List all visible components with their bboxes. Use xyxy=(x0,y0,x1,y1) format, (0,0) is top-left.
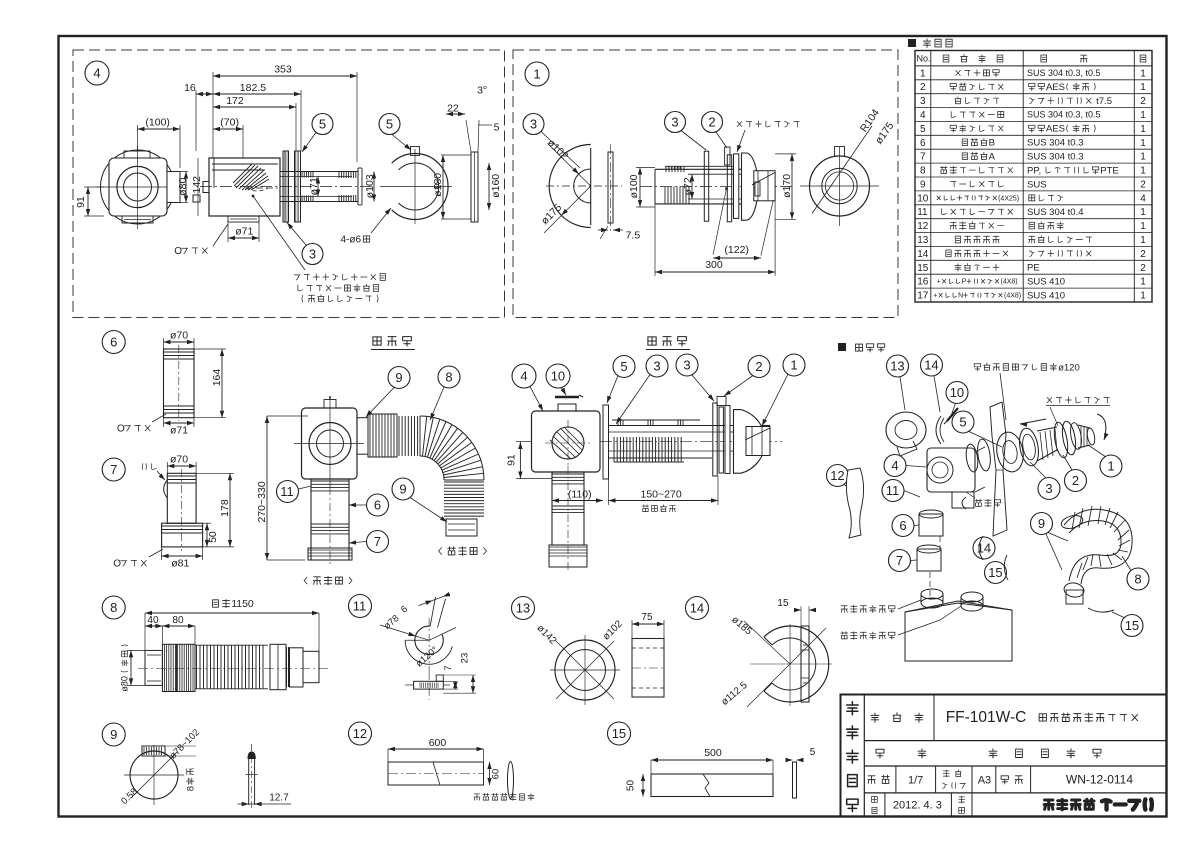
svg-text:1: 1 xyxy=(1140,110,1146,121)
svg-text:A: A xyxy=(989,152,996,163)
svg-text:2: 2 xyxy=(1140,249,1146,260)
svg-text:3: 3 xyxy=(683,358,690,373)
svg-text:8: 8 xyxy=(1134,572,1141,587)
svg-text:9: 9 xyxy=(110,727,117,742)
svg-text:ø100: ø100 xyxy=(628,174,640,198)
svg-text:2: 2 xyxy=(920,82,926,93)
svg-text:2: 2 xyxy=(1140,179,1146,190)
svg-text:6: 6 xyxy=(899,518,906,533)
svg-text:3: 3 xyxy=(671,115,678,130)
svg-text:(70): (70) xyxy=(220,117,239,129)
svg-text:13: 13 xyxy=(890,359,904,374)
svg-text:ø71: ø71 xyxy=(308,177,320,195)
svg-text:7: 7 xyxy=(374,534,381,549)
svg-text:ø70: ø70 xyxy=(170,330,188,342)
svg-text:150~270: 150~270 xyxy=(641,489,682,501)
svg-text:9: 9 xyxy=(1038,516,1045,531)
svg-text:N: N xyxy=(958,293,963,300)
svg-text:(122): (122) xyxy=(724,244,749,256)
svg-text:AES: AES xyxy=(1046,82,1065,93)
svg-text:SUS 410: SUS 410 xyxy=(1027,290,1065,301)
svg-text:13: 13 xyxy=(516,601,530,616)
svg-text:t7.5: t7.5 xyxy=(1094,96,1113,107)
svg-text:40: 40 xyxy=(147,615,159,626)
svg-text:A3: A3 xyxy=(978,774,991,786)
svg-text:3: 3 xyxy=(309,247,316,262)
svg-text:15: 15 xyxy=(917,263,929,274)
svg-text:ø103: ø103 xyxy=(364,174,376,198)
svg-text:O: O xyxy=(174,246,182,257)
svg-text:3: 3 xyxy=(920,96,926,107)
svg-text:14: 14 xyxy=(977,541,991,556)
svg-text:1: 1 xyxy=(1107,459,1114,474)
svg-text:4: 4 xyxy=(520,369,527,384)
svg-text:(4X25): (4X25) xyxy=(998,195,1019,202)
svg-text:7: 7 xyxy=(443,665,454,670)
svg-text:ø170: ø170 xyxy=(781,174,793,198)
svg-text:2: 2 xyxy=(1140,96,1146,107)
svg-text:10: 10 xyxy=(917,193,929,204)
svg-text:178: 178 xyxy=(219,499,231,517)
svg-text:2: 2 xyxy=(1072,473,1079,488)
svg-text:17: 17 xyxy=(917,291,929,302)
svg-text:4: 4 xyxy=(891,458,898,473)
svg-text:1: 1 xyxy=(1140,152,1146,163)
svg-text:8: 8 xyxy=(185,786,196,791)
svg-text:SUS 304 t0.3: SUS 304 t0.3 xyxy=(1027,138,1084,149)
svg-text:PTE: PTE xyxy=(1100,165,1118,176)
svg-text:60: 60 xyxy=(490,769,501,780)
svg-text:+: + xyxy=(933,293,937,300)
svg-text:164: 164 xyxy=(211,369,223,387)
svg-text:75: 75 xyxy=(641,612,653,623)
svg-text:FF-101W-C: FF-101W-C xyxy=(946,709,1027,726)
svg-text:8: 8 xyxy=(445,370,452,385)
svg-text:ø72: ø72 xyxy=(682,177,694,195)
svg-text:8: 8 xyxy=(110,600,117,615)
svg-text:WN-12-0114: WN-12-0114 xyxy=(1066,773,1133,787)
svg-text:2: 2 xyxy=(1140,263,1146,274)
svg-text:ø71: ø71 xyxy=(170,425,188,437)
svg-text:SUS 304 t0.3, t0.5: SUS 304 t0.3, t0.5 xyxy=(1027,68,1101,78)
svg-text:91: 91 xyxy=(506,454,518,466)
svg-text:9: 9 xyxy=(395,370,402,385)
svg-text:80: 80 xyxy=(172,615,184,626)
svg-text:16: 16 xyxy=(917,277,929,288)
svg-text:11: 11 xyxy=(280,484,294,499)
svg-text:1: 1 xyxy=(1140,82,1146,93)
svg-text:O: O xyxy=(117,424,125,435)
svg-text:5: 5 xyxy=(810,747,816,758)
svg-text:4: 4 xyxy=(920,110,926,121)
svg-text:353: 353 xyxy=(274,64,292,76)
svg-text:1: 1 xyxy=(533,67,540,82)
svg-text:1: 1 xyxy=(1140,291,1146,302)
svg-text:3: 3 xyxy=(530,117,537,132)
svg-text:10: 10 xyxy=(551,369,565,384)
svg-text:14: 14 xyxy=(690,601,704,616)
svg-text:1: 1 xyxy=(1140,166,1146,177)
svg-text:15: 15 xyxy=(988,565,1002,580)
svg-text:B: B xyxy=(989,138,995,149)
svg-text:ø80: ø80 xyxy=(120,676,130,692)
svg-text:ø80: ø80 xyxy=(177,178,189,196)
svg-text:SUS 304 t0.3: SUS 304 t0.3 xyxy=(1027,152,1084,163)
svg-text:No.: No. xyxy=(917,54,931,64)
svg-text:ø81: ø81 xyxy=(171,558,189,570)
svg-text:1/7: 1/7 xyxy=(908,774,923,786)
svg-text:1: 1 xyxy=(1140,277,1146,288)
svg-text:(4X8): (4X8) xyxy=(1004,293,1021,300)
svg-text:1: 1 xyxy=(920,68,926,79)
svg-text:91: 91 xyxy=(75,196,87,208)
svg-text:O: O xyxy=(113,559,121,570)
svg-text:1: 1 xyxy=(1140,68,1146,79)
svg-text:14: 14 xyxy=(917,249,929,260)
svg-text:SUS: SUS xyxy=(1027,179,1047,190)
svg-text:3: 3 xyxy=(653,359,660,374)
svg-text:50: 50 xyxy=(626,780,637,792)
svg-text:ø120: ø120 xyxy=(1058,362,1080,373)
svg-text:12: 12 xyxy=(353,726,367,741)
svg-text:2: 2 xyxy=(755,359,762,374)
svg-text:ø160: ø160 xyxy=(490,174,502,198)
svg-text:5: 5 xyxy=(620,359,627,374)
svg-text:12: 12 xyxy=(917,221,929,232)
svg-text:16: 16 xyxy=(184,82,196,94)
svg-text:3: 3 xyxy=(1045,481,1052,496)
svg-text:22: 22 xyxy=(447,103,459,115)
svg-text:15: 15 xyxy=(612,726,626,741)
svg-text:142: 142 xyxy=(191,176,203,194)
svg-text:2012. 4. 3: 2012. 4. 3 xyxy=(893,800,942,812)
svg-text:172: 172 xyxy=(226,95,244,107)
svg-text:182.5: 182.5 xyxy=(240,82,266,94)
svg-text:7.5: 7.5 xyxy=(626,230,641,242)
svg-text:AES: AES xyxy=(1046,124,1065,135)
svg-text:1150: 1150 xyxy=(231,598,254,610)
svg-text:PP,: PP, xyxy=(1027,165,1044,176)
svg-text:SUS 410: SUS 410 xyxy=(1027,277,1065,288)
svg-text:10: 10 xyxy=(950,385,964,400)
svg-text:+: + xyxy=(937,279,941,286)
svg-text:1: 1 xyxy=(790,358,797,373)
svg-text:9: 9 xyxy=(399,482,406,497)
svg-text:12.7: 12.7 xyxy=(269,793,289,804)
svg-text:1: 1 xyxy=(1140,235,1146,246)
svg-text:7: 7 xyxy=(110,462,117,477)
svg-text:2: 2 xyxy=(708,115,715,130)
svg-text:11: 11 xyxy=(917,207,928,218)
svg-text:600: 600 xyxy=(429,737,447,749)
svg-text:6: 6 xyxy=(374,498,381,513)
svg-text:15: 15 xyxy=(777,598,789,609)
svg-text:3°: 3° xyxy=(477,85,487,97)
svg-text:1: 1 xyxy=(1140,124,1146,135)
svg-text:7: 7 xyxy=(920,152,926,163)
svg-text:(110): (110) xyxy=(568,489,592,501)
svg-text:6: 6 xyxy=(110,335,117,350)
svg-text:9: 9 xyxy=(920,179,926,190)
svg-text:1: 1 xyxy=(1140,221,1146,232)
svg-text:14: 14 xyxy=(924,358,938,373)
svg-text:1: 1 xyxy=(1140,138,1146,149)
svg-text:PE: PE xyxy=(1027,263,1040,274)
svg-text:7: 7 xyxy=(896,553,903,568)
svg-text:4-ø6: 4-ø6 xyxy=(341,235,362,246)
svg-text:5: 5 xyxy=(920,124,926,135)
svg-text:5: 5 xyxy=(386,117,393,132)
svg-text:1: 1 xyxy=(1140,207,1146,218)
svg-text:ø180: ø180 xyxy=(432,173,444,197)
svg-text:SUS 304 t0.4: SUS 304 t0.4 xyxy=(1027,207,1084,218)
svg-text:11: 11 xyxy=(353,599,367,614)
svg-text:13: 13 xyxy=(917,235,929,246)
svg-text:SUS 304 t0.3, t0.5: SUS 304 t0.3, t0.5 xyxy=(1027,110,1101,120)
svg-text:8: 8 xyxy=(920,166,926,177)
svg-text:4: 4 xyxy=(1140,193,1146,204)
svg-text:5: 5 xyxy=(494,122,500,134)
svg-text:300: 300 xyxy=(705,259,723,271)
svg-text:50: 50 xyxy=(207,531,219,543)
svg-text:500: 500 xyxy=(704,747,722,759)
svg-text:11: 11 xyxy=(886,483,900,498)
svg-text:5: 5 xyxy=(959,415,966,430)
svg-text:P: P xyxy=(962,279,967,286)
svg-text:(100): (100) xyxy=(145,117,170,129)
svg-text:4: 4 xyxy=(93,66,100,81)
svg-text:ø71: ø71 xyxy=(235,226,253,238)
svg-text:(4X8): (4X8) xyxy=(1001,279,1018,286)
svg-text:23: 23 xyxy=(459,653,470,664)
svg-text:12: 12 xyxy=(830,468,844,483)
svg-text:15: 15 xyxy=(1125,618,1139,633)
svg-text:6: 6 xyxy=(920,138,926,149)
svg-text:5: 5 xyxy=(319,117,326,132)
svg-text:ø70: ø70 xyxy=(170,454,188,466)
svg-text:270~330: 270~330 xyxy=(256,481,268,522)
